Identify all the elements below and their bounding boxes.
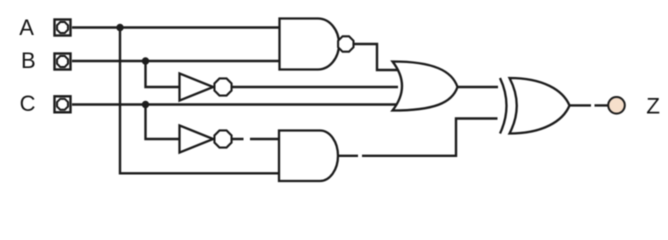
output terminal Z pad (608, 97, 625, 114)
inverter U2 triangle (180, 73, 214, 100)
nand gate U1 bubble (338, 36, 353, 51)
xor gate U6 input arc (500, 78, 507, 134)
wire NAND output bend into OR (354, 44, 398, 70)
input terminal A (55, 20, 71, 36)
wire C horizontal (72, 103, 398, 105)
wire B horizontal (72, 60, 279, 62)
wire inverter U3 output to AND (232, 138, 279, 140)
wire C branch down to inverter U3 (146, 105, 180, 140)
xor gate U6 body (510, 78, 570, 134)
inverter U2 bubble (214, 78, 231, 95)
svg-text:Z: Z (646, 94, 660, 119)
svg-text:A: A (19, 15, 34, 40)
junction node on C (142, 101, 149, 108)
nand gate U1 body (280, 19, 340, 70)
wire OR output to XOR (458, 86, 499, 88)
svg-text:B: B (21, 48, 36, 73)
wire inverter U2 output to OR (232, 86, 398, 88)
junction node on B (142, 57, 149, 64)
wire AND output bend up into XOR (362, 119, 498, 156)
junction node on A (116, 24, 123, 31)
wire A horizontal (72, 26, 279, 28)
and gate U4 body (279, 131, 338, 182)
wire B branch down to inverter U2 (146, 61, 180, 87)
wire XOR output to terminal Z (570, 104, 609, 106)
input terminal C (55, 96, 71, 112)
inverter U3 bubble (214, 130, 231, 147)
wire A branch down and along bottom to AND (120, 28, 279, 174)
wire AND output (338, 155, 358, 157)
svg-text:C: C (20, 91, 36, 116)
inverter U3 triangle (180, 125, 214, 152)
or gate U5 body (393, 62, 458, 111)
input terminal B (55, 54, 71, 70)
